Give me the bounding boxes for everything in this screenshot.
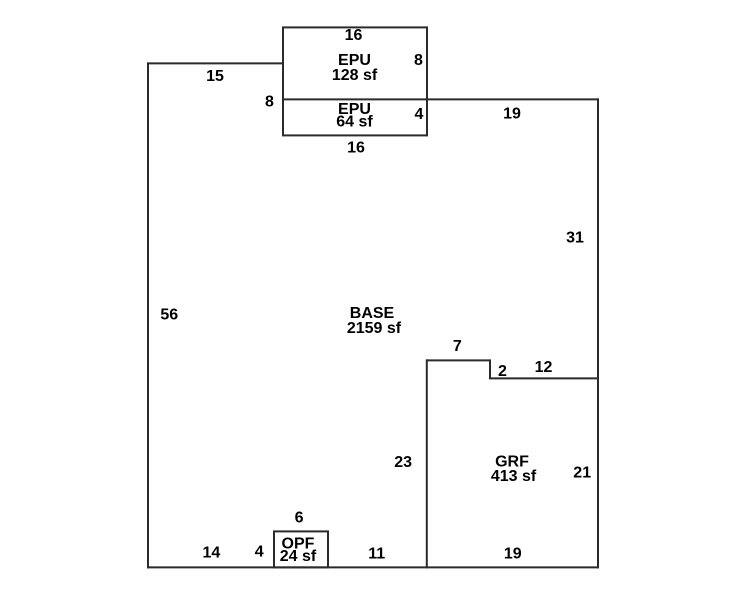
svg-text:23: 23 [394,454,412,471]
wire EPU divider and base top-right wall [283,98,598,100]
svg-text:16: 16 [347,140,365,157]
svg-text:15: 15 [206,68,224,85]
svg-text:56: 56 [160,307,178,324]
wire garage left wall [426,360,428,567]
svg-text:8: 8 [265,94,274,111]
svg-text:16: 16 [345,27,363,44]
svg-text:19: 19 [504,546,522,563]
wire OPF porch box [274,531,328,567]
svg-text:4: 4 [415,106,424,123]
svg-text:31: 31 [566,230,584,247]
svg-text:4: 4 [255,544,264,561]
svg-text:2: 2 [498,363,507,380]
svg-text:8: 8 [414,52,423,69]
wire base left wall [147,63,149,567]
svg-text:7: 7 [453,338,462,355]
svg-text:12: 12 [535,359,553,376]
wire garage notch top [427,360,598,378]
svg-text:128 sf: 128 sf [332,67,378,84]
svg-text:2159 sf: 2159 sf [347,320,402,337]
wire bottom wall [148,566,598,568]
wire base top-left wall [148,62,283,64]
wire EPU enclosure box [283,27,427,135]
svg-text:14: 14 [203,545,221,562]
svg-text:6: 6 [295,510,304,527]
svg-text:64 sf: 64 sf [336,114,373,131]
wire base right wall [597,99,599,567]
svg-text:11: 11 [368,546,385,563]
svg-text:24 sf: 24 sf [280,548,317,565]
svg-text:19: 19 [503,106,521,123]
svg-text:413 sf: 413 sf [491,468,537,485]
svg-text:21: 21 [573,465,591,482]
